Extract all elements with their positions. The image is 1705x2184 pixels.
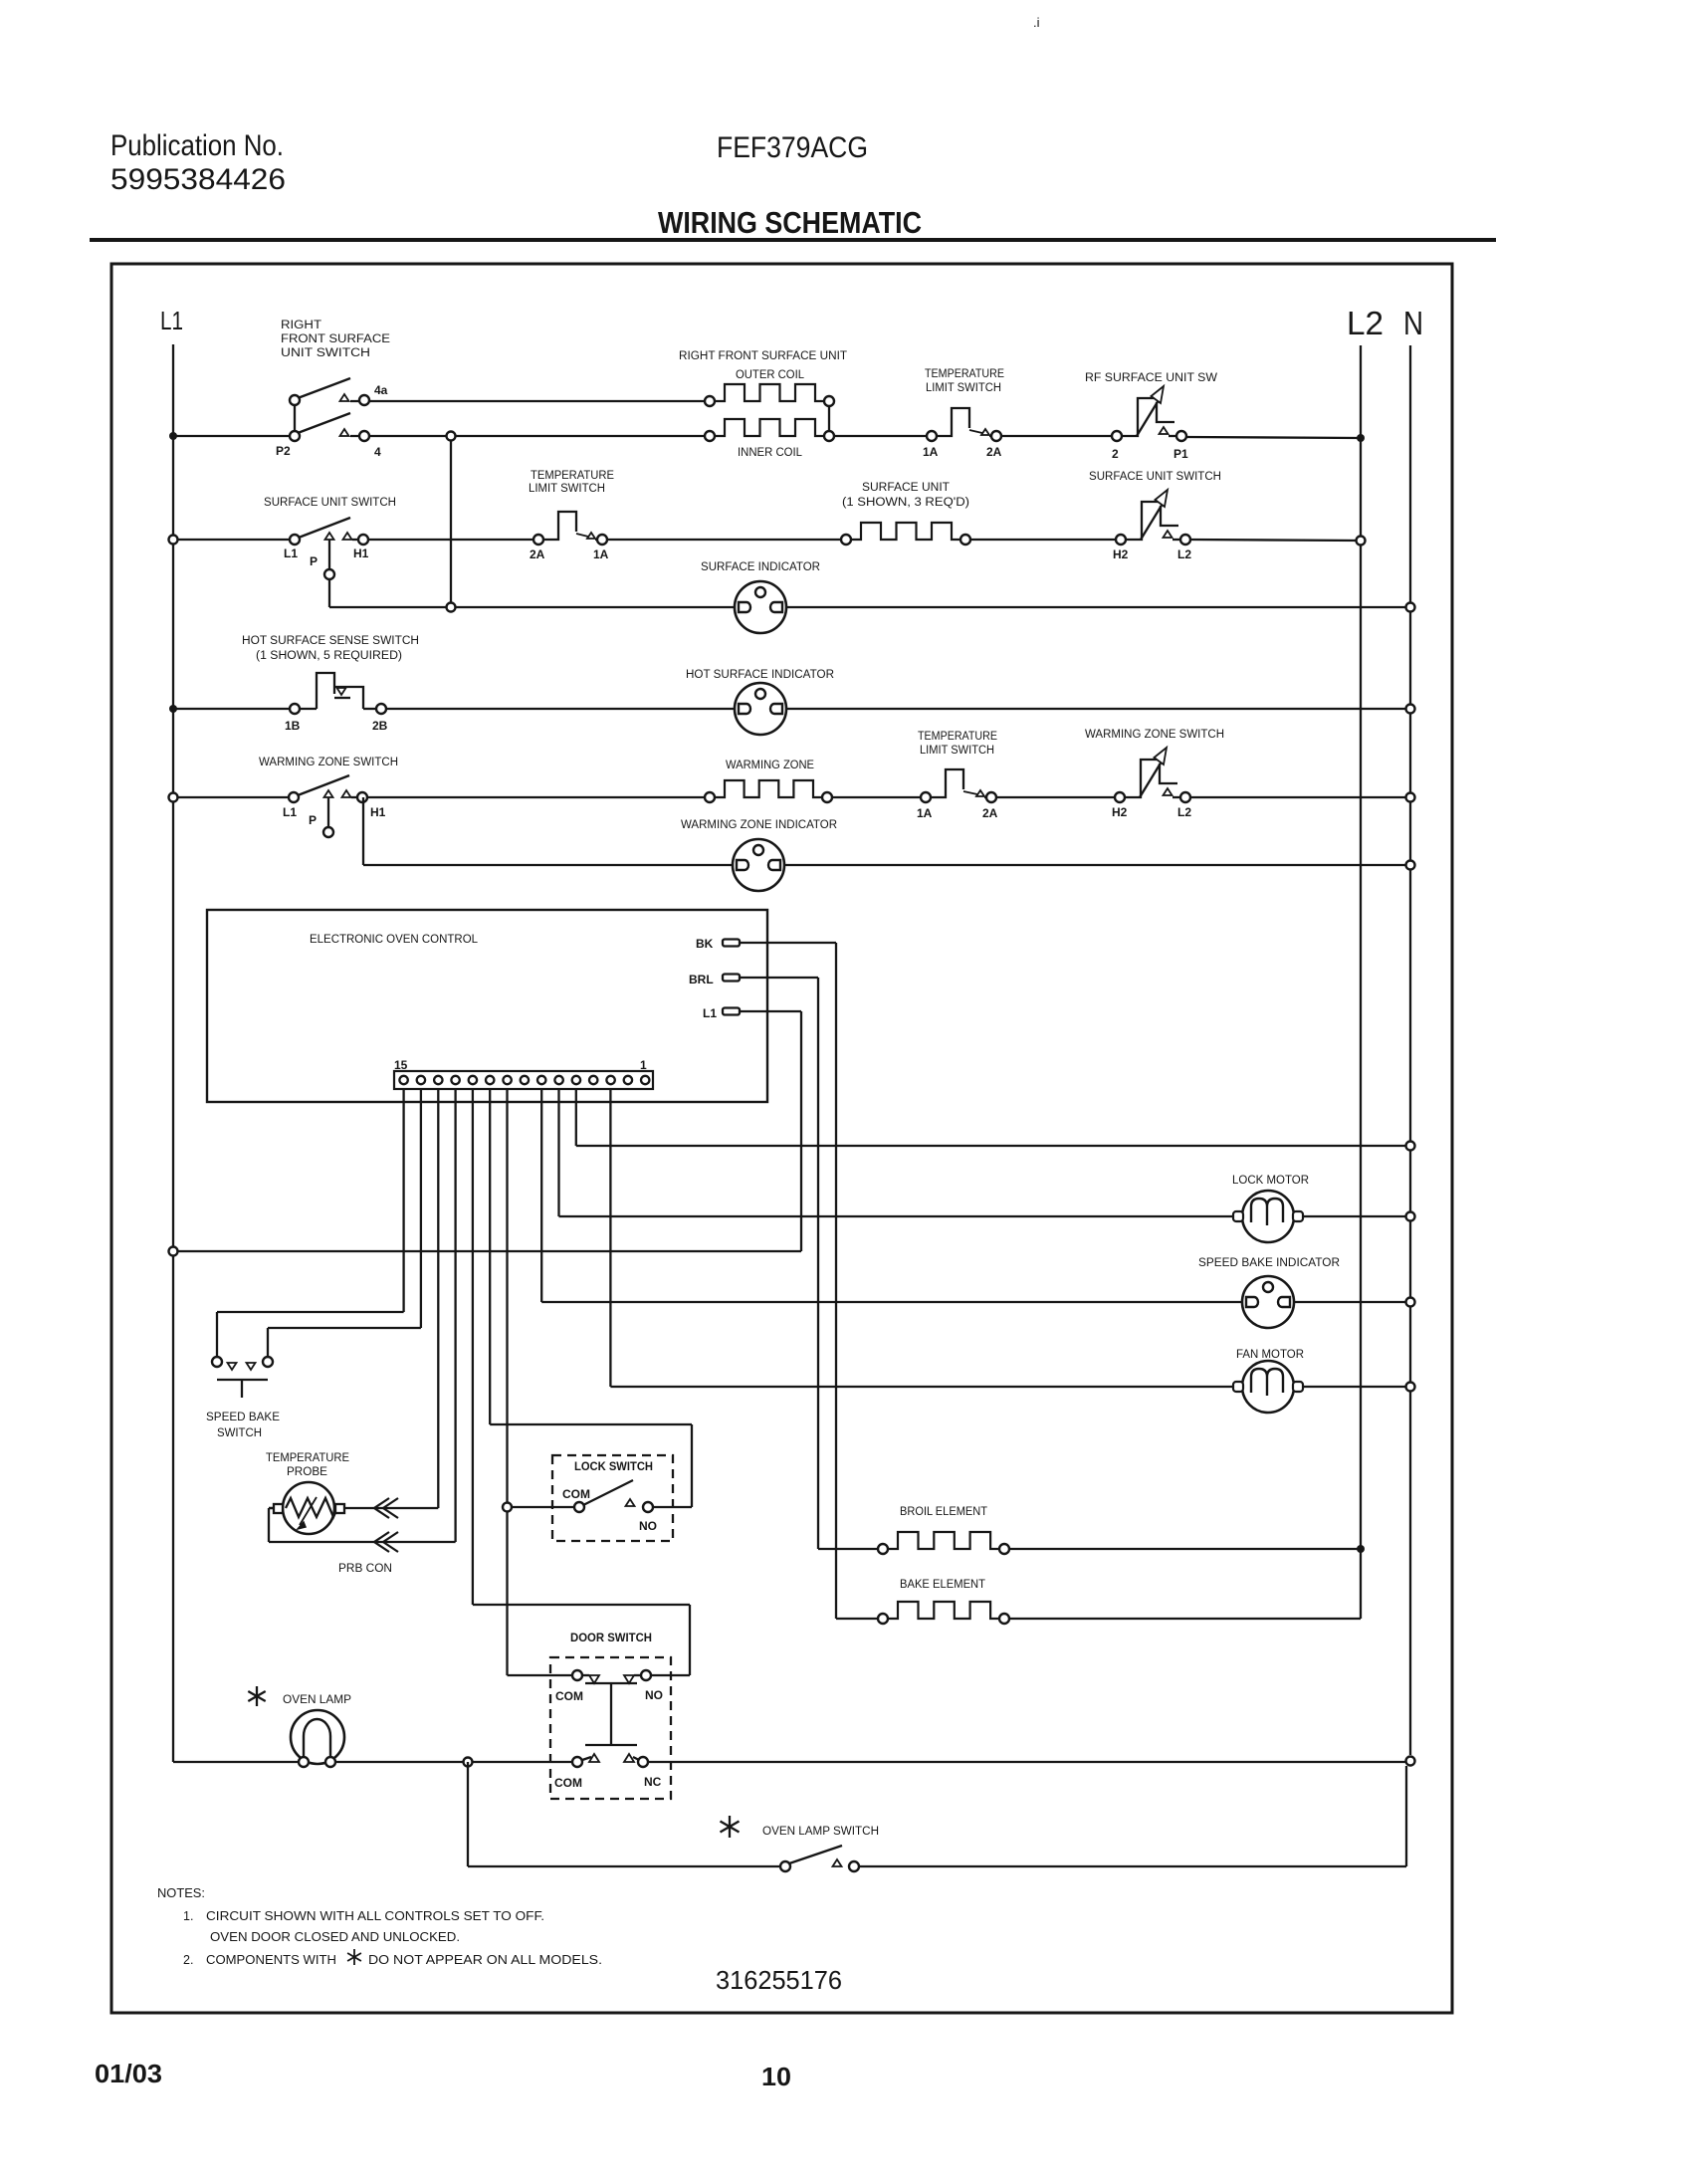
box LOCK SWITCH: [552, 1455, 673, 1541]
wire EOC L1 to L1 bus: [173, 1250, 801, 1252]
wire door NC to N end: [648, 1761, 1406, 1763]
wire BK to bake drop: [740, 942, 836, 944]
svg-text:4: 4: [374, 445, 381, 459]
connector pin 9: [503, 1076, 511, 1084]
svg-text:RIGHT: RIGHT: [281, 320, 321, 331]
wire warming row to N: [1190, 796, 1410, 798]
wire H1 to 2A: [368, 539, 538, 541]
wire speed bake indicator row: [541, 1301, 1410, 1303]
connector pin 12: [451, 1076, 459, 1084]
junction L2 row1: [1357, 434, 1365, 442]
svg-text:BAKE ELEMENT: BAKE ELEMENT: [900, 1579, 985, 1591]
svg-text:SURFACE UNIT: SURFACE UNIT: [862, 482, 950, 494]
wire row1 L1 to P2: [173, 435, 295, 437]
svg-text:FRONT SURFACE: FRONT SURFACE: [281, 333, 390, 345]
wire BRL vertical: [817, 978, 819, 1549]
svg-text:H2: H2: [1112, 805, 1128, 819]
wire fan motor row: [610, 1386, 1410, 1388]
wire pin6 drop: [557, 1089, 559, 1216]
svg-text:LIMIT SWITCH: LIMIT SWITCH: [529, 483, 605, 495]
motor FAN MOTOR: [1233, 1361, 1303, 1413]
asterisk oven lamp switch: [721, 1816, 740, 1838]
wire BK vertical: [835, 943, 837, 1619]
junction L2 broil: [1357, 1545, 1365, 1553]
svg-text:BRL: BRL: [689, 973, 714, 986]
connector pin 8: [521, 1076, 529, 1084]
wire lamp switch row left: [468, 1865, 780, 1867]
svg-text:1A: 1A: [923, 445, 939, 459]
svg-text:PROBE: PROBE: [287, 1466, 327, 1478]
wire pin13 to probe: [344, 1507, 438, 1509]
connector pin 1: [641, 1076, 649, 1084]
junction L1 row1: [169, 432, 177, 440]
svg-text:P: P: [309, 813, 317, 827]
svg-text:OVEN LAMP: OVEN LAMP: [283, 1694, 351, 1706]
svg-text:5995384426: 5995384426: [110, 163, 286, 196]
svg-text:LIMIT SWITCH: LIMIT SWITCH: [920, 745, 994, 757]
wire pin14 to speed bake right: [268, 1327, 421, 1329]
lug L1: [723, 1008, 740, 1015]
svg-text:FEF379ACG: FEF379ACG: [717, 131, 868, 164]
svg-text:UNIT SWITCH: UNIT SWITCH: [281, 347, 370, 359]
svg-text:HOT SURFACE INDICATOR: HOT SURFACE INDICATOR: [686, 669, 834, 681]
junction row1 tap: [447, 432, 456, 441]
connector P15-P1: [394, 1071, 653, 1089]
svg-text:FAN MOTOR: FAN MOTOR: [1236, 1349, 1304, 1361]
coil inner RIGHT FRONT SURFACE UNIT: [705, 419, 834, 441]
wire pin15 drop: [402, 1089, 404, 1312]
wire BK to bake element: [836, 1618, 883, 1620]
svg-text:NC: NC: [644, 1775, 662, 1789]
wire pin13 drop: [437, 1089, 439, 1508]
wire hot surface row right: [386, 708, 1410, 710]
svg-text:L2: L2: [1177, 547, 1191, 561]
svg-text:SURFACE UNIT SWITCH: SURFACE UNIT SWITCH: [1089, 471, 1221, 483]
junction N pin5 row: [1406, 1142, 1415, 1151]
lamp SPEED BAKE INDICATOR: [1242, 1276, 1294, 1328]
switch DOOR SWITCH lower pole: [572, 1754, 648, 1767]
switch temperature limit row4: [921, 769, 996, 802]
resistor TEMPERATURE PROBE: [274, 1482, 344, 1534]
svg-text:RF SURFACE UNIT SW: RF SURFACE UNIT SW: [1085, 372, 1217, 384]
lamp SURFACE INDICATOR: [735, 581, 786, 633]
svg-text:P2: P2: [276, 444, 291, 458]
junction N speed bake indicator row: [1406, 1298, 1415, 1307]
svg-text:2A: 2A: [986, 445, 1002, 459]
svg-text:SPEED BAKE: SPEED BAKE: [206, 1412, 280, 1423]
wire L2 terminal to L2 bus: [1190, 540, 1361, 541]
wire N bus vertical: [1409, 345, 1411, 1755]
junction N surface indicator: [1406, 603, 1415, 612]
junction L1 EOC feed: [169, 1247, 178, 1256]
wire bake element to L2: [1009, 1618, 1361, 1620]
svg-text:LOCK MOTOR: LOCK MOTOR: [1232, 1175, 1309, 1187]
connector pin 14: [417, 1076, 425, 1084]
lug BRL: [723, 975, 740, 982]
wire pin9 drop: [506, 1089, 508, 1675]
svg-text:NO: NO: [645, 1688, 663, 1702]
connector pin 4: [589, 1076, 597, 1084]
switch temperature limit row1: [927, 408, 1001, 441]
svg-text:2: 2: [1112, 447, 1119, 461]
connector pin 11: [469, 1076, 477, 1084]
coil SURFACE UNIT: [841, 523, 970, 545]
wire P1 to L2 bus: [1186, 437, 1361, 438]
switch DOOR SWITCH upper pole: [572, 1670, 651, 1745]
wire lamp switch row right: [859, 1865, 1406, 1867]
lamp HOT SURFACE INDICATOR: [735, 683, 786, 735]
svg-text:DO NOT APPEAR ON ALL MODELS.: DO NOT APPEAR ON ALL MODELS.: [368, 1953, 602, 1967]
svg-text:.i: .i: [1033, 15, 1040, 30]
wire coil to 1A: [832, 796, 926, 798]
wire pin10 drop: [489, 1089, 491, 1424]
svg-text:OVEN LAMP SWITCH: OVEN LAMP SWITCH: [762, 1826, 879, 1838]
wire pin15 to speed bake left: [217, 1311, 404, 1313]
coil BAKE ELEMENT: [878, 1602, 1009, 1624]
junction lock COM tap: [503, 1503, 512, 1512]
junction N warming indicator: [1406, 861, 1415, 870]
svg-text:L2: L2: [1347, 305, 1384, 341]
wire 2A to H2: [996, 796, 1115, 798]
wire pin7 drop: [540, 1089, 542, 1302]
svg-text:ELECTRONIC OVEN CONTROL: ELECTRONIC OVEN CONTROL: [310, 934, 479, 946]
svg-text:P: P: [310, 554, 318, 568]
wire lamp switch drop: [467, 1762, 469, 1866]
terminal P warming: [323, 827, 333, 837]
junction L1 warming row: [169, 793, 178, 802]
wire surface indicator row: [329, 606, 1410, 608]
wire L1 bus vertical: [172, 344, 174, 1762]
svg-text:1: 1: [640, 1058, 647, 1072]
wire oven lamp row left: [173, 1761, 573, 1763]
switch RF SURFACE UNIT SW: [1112, 386, 1186, 441]
svg-text:INNER COIL: INNER COIL: [738, 447, 803, 459]
wire pin5 row to N: [576, 1145, 1410, 1147]
wire outer-inner coil link: [828, 401, 830, 436]
junction L1 hot surface row: [169, 705, 177, 713]
wire BRL to broil drop: [740, 977, 818, 979]
svg-text:(1 SHOWN, 5 REQUIRED): (1 SHOWN, 5 REQUIRED): [256, 650, 402, 662]
svg-text:(1 SHOWN, 3 REQ'D): (1 SHOWN, 3 REQ'D): [842, 497, 969, 509]
wire pin12 PRB CON run: [269, 1541, 456, 1543]
svg-text:HOT SURFACE SENSE SWITCH: HOT SURFACE SENSE SWITCH: [242, 635, 419, 647]
coil outer RIGHT FRONT SURFACE UNIT: [705, 384, 834, 406]
svg-text:L2: L2: [1177, 805, 1191, 819]
terminal P row2: [324, 569, 334, 579]
svg-text:COM: COM: [554, 1776, 582, 1790]
wire pin12 drop: [454, 1089, 456, 1542]
switch OVEN LAMP SWITCH: [780, 1846, 859, 1871]
wire H1 to warming coil: [367, 796, 710, 798]
wire row2 L1 to switch: [173, 539, 295, 541]
svg-text:L1: L1: [283, 805, 297, 819]
switch LOCK SWITCH contacts: [574, 1480, 653, 1512]
svg-text:TEMPERATURE: TEMPERATURE: [266, 1452, 349, 1464]
svg-text:L1: L1: [703, 1006, 717, 1020]
connector pin 6: [554, 1076, 562, 1084]
wire inner coil to 1A: [834, 435, 932, 437]
connector pin 15: [399, 1076, 407, 1084]
svg-text:WIRING SCHEMATIC: WIRING SCHEMATIC: [658, 205, 922, 240]
switch RIGHT FRONT SURFACE UNIT SWITCH P2: [290, 378, 369, 441]
svg-text:01/03: 01/03: [95, 2059, 162, 2088]
svg-text:CIRCUIT SHOWN WITH ALL CONTROL: CIRCUIT SHOWN WITH ALL CONTROLS SET TO O…: [206, 1909, 544, 1923]
wire pin14 drop: [420, 1089, 422, 1328]
svg-text:WARMING ZONE: WARMING ZONE: [726, 760, 814, 771]
junction N hot surface row: [1406, 705, 1415, 714]
wire probe left stub: [269, 1507, 274, 1509]
svg-text:OVEN DOOR CLOSED AND UNLOCKED.: OVEN DOOR CLOSED AND UNLOCKED.: [210, 1930, 460, 1944]
wire hot surface row left: [173, 708, 295, 710]
svg-text:1.: 1.: [183, 1909, 193, 1923]
svg-text:SWITCH: SWITCH: [217, 1427, 262, 1439]
wire pin11 drop: [472, 1089, 474, 1605]
svg-text:COM: COM: [562, 1487, 590, 1501]
asterisk oven lamp: [248, 1686, 265, 1706]
junction oven lamp switch tap: [464, 1758, 473, 1767]
svg-text:NOTES:: NOTES:: [157, 1886, 205, 1900]
svg-text:H1: H1: [353, 546, 369, 560]
svg-text:SURFACE INDICATOR: SURFACE INDICATOR: [701, 561, 820, 573]
junction N warming row: [1406, 793, 1415, 802]
wire pin10 around lock switch: [490, 1423, 692, 1425]
wire lock motor row: [559, 1215, 1411, 1217]
wire warming row left: [173, 796, 294, 798]
wire P tap to indicator row: [328, 579, 330, 607]
lug BK: [723, 940, 740, 947]
connector pin 13: [434, 1076, 442, 1084]
svg-text:LIMIT SWITCH: LIMIT SWITCH: [926, 382, 1001, 394]
wire EOC L1 out: [740, 1010, 801, 1012]
connector pin 2: [624, 1076, 632, 1084]
motor LOCK MOTOR: [1233, 1191, 1303, 1242]
svg-text:1A: 1A: [593, 547, 609, 561]
svg-text:L1: L1: [160, 306, 183, 335]
connector pin 3: [606, 1076, 614, 1084]
wire P tap down: [328, 540, 330, 569]
wire warming P tap: [327, 797, 329, 827]
switch temperature limit row2: [533, 512, 607, 545]
svg-text:NO: NO: [639, 1519, 657, 1533]
svg-text:OUTER COIL: OUTER COIL: [736, 369, 805, 381]
svg-text:2A: 2A: [982, 806, 998, 820]
svg-text:2B: 2B: [372, 719, 388, 733]
wire warming indicator row: [363, 864, 1410, 866]
svg-text:WARMING ZONE SWITCH: WARMING ZONE SWITCH: [259, 757, 398, 768]
svg-text:SPEED BAKE INDICATOR: SPEED BAKE INDICATOR: [1198, 1257, 1340, 1269]
wire coil to H2: [970, 539, 1116, 541]
svg-text:N: N: [1403, 305, 1423, 341]
title underline: [90, 238, 1496, 242]
wire pin11 over door switch: [473, 1604, 690, 1606]
wire pin3 drop: [609, 1089, 611, 1387]
svg-text:4a: 4a: [374, 383, 388, 397]
junction L1 row2: [169, 536, 178, 545]
junction N fan motor row: [1406, 1383, 1415, 1392]
wire lamp switch riser to N end: [1405, 1766, 1407, 1866]
connector pin 7: [537, 1076, 545, 1084]
connector pin 5: [572, 1076, 580, 1084]
svg-text:COMPONENTS WITH: COMPONENTS WITH: [206, 1953, 336, 1967]
junction N lock motor row: [1406, 1212, 1415, 1221]
svg-text:316255176: 316255176: [716, 1965, 842, 1995]
svg-text:WARMING ZONE INDICATOR: WARMING ZONE INDICATOR: [681, 819, 837, 831]
svg-text:DOOR SWITCH: DOOR SWITCH: [570, 1631, 652, 1644]
wire BRL to broil element: [818, 1548, 883, 1550]
svg-text:SURFACE UNIT SWITCH: SURFACE UNIT SWITCH: [264, 497, 396, 509]
wire pin9 to door COM: [508, 1674, 573, 1676]
svg-text:H1: H1: [370, 805, 386, 819]
wire EOC L1 vertical: [800, 1011, 802, 1251]
svg-text:L1: L1: [284, 546, 298, 560]
switch HOT SURFACE SENSE SWITCH: [290, 673, 386, 714]
switch WARMING ZONE SWITCH right: [1115, 748, 1190, 802]
junction L2 row2: [1357, 537, 1366, 546]
svg-text:RIGHT FRONT SURFACE UNIT: RIGHT FRONT SURFACE UNIT: [679, 350, 847, 362]
coil BROIL ELEMENT: [878, 1532, 1009, 1554]
lamp OVEN LAMP: [291, 1710, 344, 1767]
junction indicator tap: [447, 603, 456, 612]
switch SURFACE UNIT SWITCH right: [1116, 490, 1190, 545]
switch WARMING ZONE SWITCH left: [289, 775, 367, 802]
svg-text:TEMPERATURE: TEMPERATURE: [531, 470, 614, 482]
wire contact4 to inner coil: [350, 435, 710, 437]
box ELECTRONIC OVEN CONTROL: [207, 910, 767, 1102]
svg-text:BK: BK: [696, 937, 714, 951]
lamp WARMING ZONE INDICATOR: [733, 839, 784, 891]
switch SURFACE UNIT SWITCH left: [290, 518, 368, 545]
connector chevrons PRB CON: [374, 1498, 389, 1518]
wire L2 bus vertical: [1360, 345, 1362, 1619]
svg-text:COM: COM: [555, 1689, 583, 1703]
box DOOR SWITCH: [550, 1657, 671, 1799]
svg-text:TEMPERATURE: TEMPERATURE: [918, 731, 997, 743]
svg-text:BROIL ELEMENT: BROIL ELEMENT: [900, 1506, 987, 1518]
svg-text:H2: H2: [1113, 547, 1129, 561]
svg-text:TEMPERATURE: TEMPERATURE: [925, 368, 1004, 380]
coil WARMING ZONE: [705, 780, 832, 802]
svg-text:P1: P1: [1173, 447, 1188, 461]
wire tap to lock COM: [508, 1506, 575, 1508]
wire 4a contact to outer coil: [350, 400, 710, 402]
wire row1 drop to indicator row: [450, 436, 452, 607]
svg-text:Publication No.: Publication No.: [110, 129, 284, 162]
svg-text:PRB CON: PRB CON: [338, 1563, 392, 1575]
svg-text:1B: 1B: [285, 719, 301, 733]
wire 2A to RF switch: [1001, 435, 1112, 437]
wire broil element to L2: [1009, 1548, 1361, 1550]
connector pin 10: [486, 1076, 494, 1084]
wire 1A to coil: [607, 539, 846, 541]
svg-text:1A: 1A: [917, 806, 933, 820]
wire pin5 drop: [575, 1089, 577, 1146]
svg-text:15: 15: [394, 1058, 408, 1072]
switch SPEED BAKE SWITCH: [212, 1357, 273, 1398]
svg-text:2A: 2A: [530, 547, 545, 561]
svg-text:2.: 2.: [183, 1953, 193, 1967]
junction N end: [1406, 1757, 1415, 1766]
svg-text:WARMING ZONE SWITCH: WARMING ZONE SWITCH: [1085, 729, 1224, 741]
schematic border frame: [111, 264, 1452, 2013]
svg-text:LOCK SWITCH: LOCK SWITCH: [574, 1459, 653, 1473]
svg-text:10: 10: [761, 2062, 791, 2091]
wire H1 drop to warming indicator: [362, 797, 364, 865]
